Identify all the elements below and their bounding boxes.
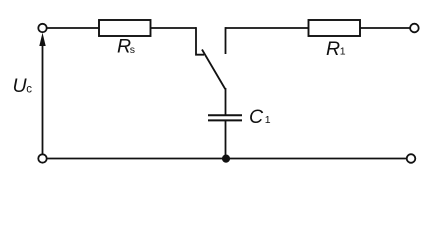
resistor Rs: [99, 20, 151, 36]
terminal top-left: [38, 24, 46, 32]
wire R1 to terminal top-right: [360, 27, 410, 29]
terminal bottom-left: [38, 154, 46, 162]
svg-text:C: C: [249, 106, 264, 128]
terminal bottom-right: [407, 154, 416, 163]
switch S left contact: [196, 27, 204, 55]
voltage arrow Uc head: [39, 33, 45, 46]
svg-text:s: s: [130, 44, 135, 56]
svg-text:R: R: [326, 38, 340, 60]
wire switch to R1: [226, 27, 309, 29]
voltage arrow Uc wire: [42, 45, 44, 155]
bottom rail wire: [47, 158, 407, 160]
wire top-left to Rs: [47, 27, 99, 29]
svg-text:1: 1: [265, 114, 271, 126]
resistor R1: [309, 20, 361, 36]
junction node: [222, 155, 230, 163]
terminal top-right: [410, 24, 419, 33]
capacitor C1: [208, 114, 242, 116]
switch blade: [202, 50, 225, 90]
wire Rs to switch: [151, 27, 197, 29]
wire capacitor to bottom rail: [225, 121, 227, 159]
wire blade to capacitor: [225, 88, 227, 115]
svg-text:c: c: [26, 83, 32, 95]
svg-text:1: 1: [340, 46, 346, 58]
switch right contact: [225, 27, 227, 54]
